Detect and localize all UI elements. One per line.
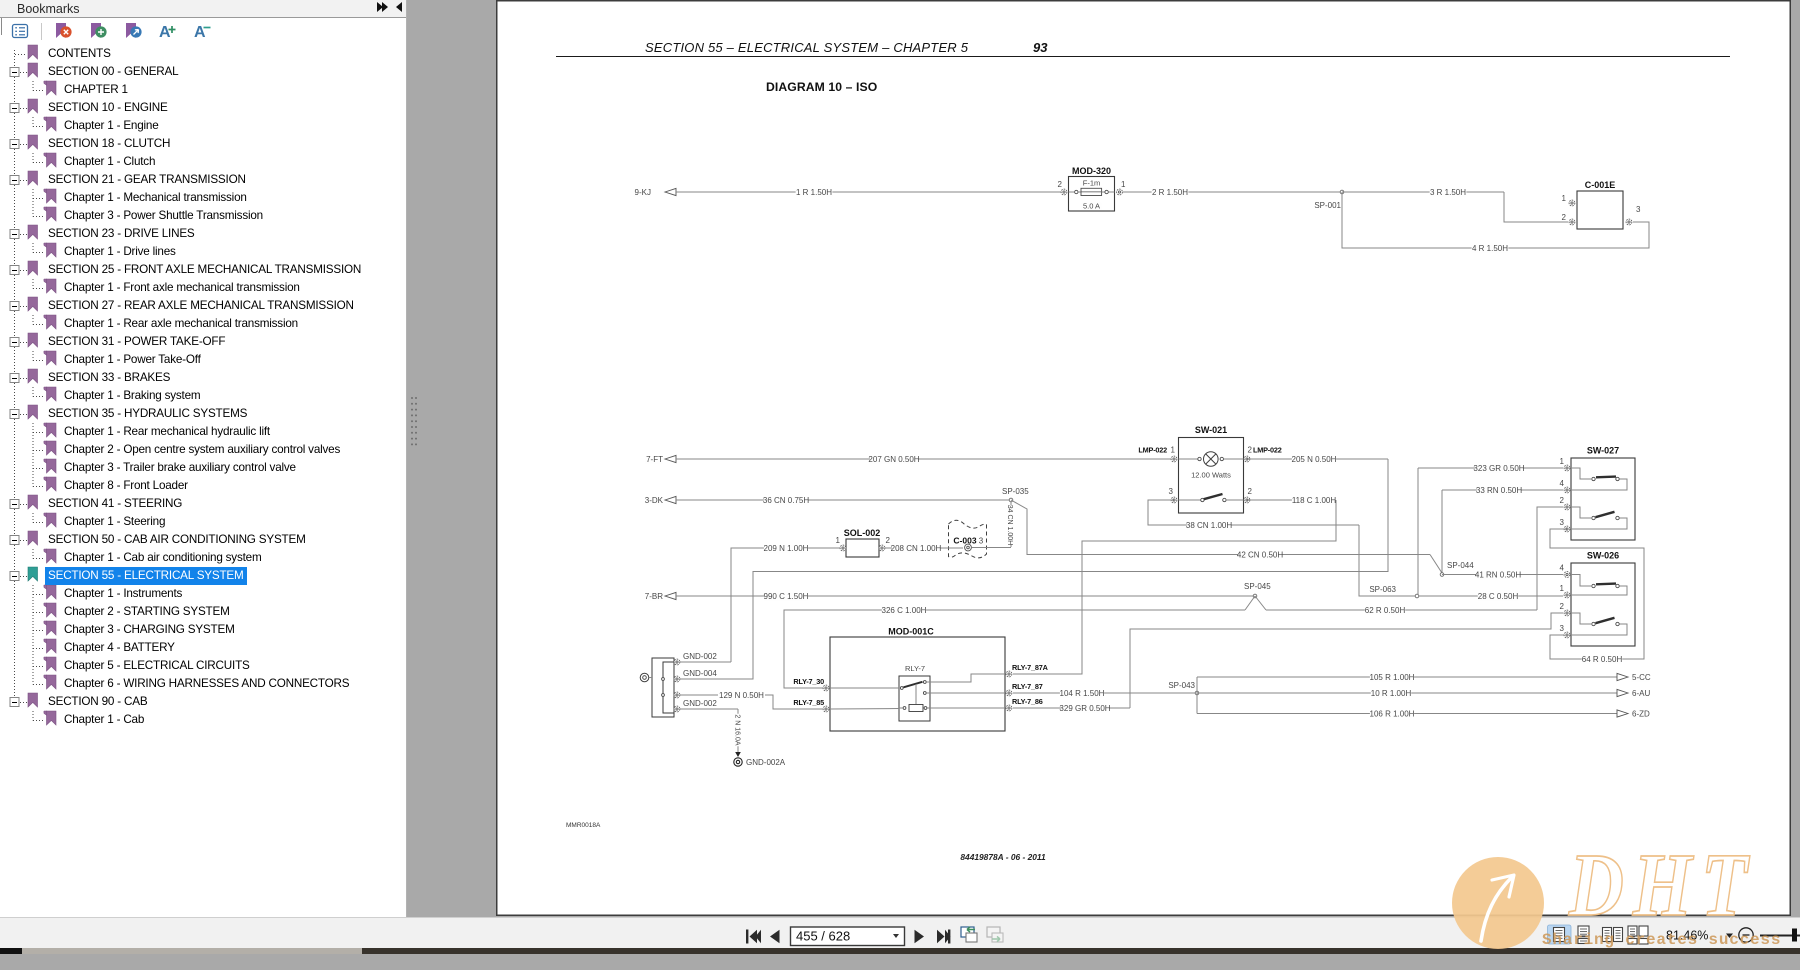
svg-text:1: 1	[1560, 584, 1565, 593]
svg-text:105 R 1.00H: 105 R 1.00H	[1370, 673, 1415, 682]
svg-text:GND-004: GND-004	[683, 669, 717, 678]
svg-text:LMP-022: LMP-022	[1253, 446, 1282, 455]
svg-text:5-CC: 5-CC	[1632, 673, 1651, 682]
svg-text:RLY-7_30: RLY-7_30	[793, 677, 824, 686]
svg-text:3-DK: 3-DK	[645, 496, 664, 505]
svg-text:3: 3	[1636, 205, 1641, 214]
svg-text:1: 1	[1171, 446, 1176, 455]
svg-text:C-003: C-003	[953, 536, 976, 546]
svg-text:MOD-320: MOD-320	[1072, 166, 1111, 176]
svg-text:SW-021: SW-021	[1195, 425, 1227, 435]
svg-text:990 C 1.50H: 990 C 1.50H	[764, 592, 809, 601]
svg-text:GND-002: GND-002	[683, 652, 717, 661]
svg-text:323 GR 0.50H: 323 GR 0.50H	[1473, 464, 1524, 473]
svg-text:2 R 1.50H: 2 R 1.50H	[1152, 188, 1188, 197]
svg-text:RLY-7_85: RLY-7_85	[793, 698, 824, 707]
svg-text:326 C 1.00H: 326 C 1.00H	[882, 606, 927, 615]
svg-text:RLY-7_87A: RLY-7_87A	[1012, 663, 1049, 672]
svg-text:3 R 1.50H: 3 R 1.50H	[1430, 188, 1466, 197]
svg-text:RLY-7: RLY-7	[905, 664, 925, 673]
svg-text:LMP-022: LMP-022	[1138, 446, 1167, 455]
svg-text:1: 1	[1121, 180, 1126, 189]
svg-text:7-BR: 7-BR	[645, 592, 663, 601]
svg-text:GND-002: GND-002	[683, 699, 717, 708]
svg-text:SW-026: SW-026	[1587, 551, 1619, 561]
svg-text:104 R 1.50H: 104 R 1.50H	[1060, 689, 1105, 698]
svg-text:SP-043: SP-043	[1168, 681, 1195, 690]
svg-text:84419878A - 06 - 2011: 84419878A - 06 - 2011	[960, 852, 1046, 862]
svg-text:129 N 0.50H: 129 N 0.50H	[719, 691, 764, 700]
svg-text:41 RN 0.50H: 41 RN 0.50H	[1475, 571, 1521, 580]
svg-text:36 CN 0.75H: 36 CN 0.75H	[763, 496, 809, 505]
svg-text:2: 2	[1560, 602, 1565, 611]
svg-text:2: 2	[1560, 496, 1565, 505]
svg-text:3: 3	[1169, 487, 1174, 496]
svg-text:2: 2	[1058, 180, 1063, 189]
svg-text:33 RN 0.50H: 33 RN 0.50H	[1476, 486, 1522, 495]
svg-text:F-1m: F-1m	[1083, 179, 1101, 188]
svg-text:SW-027: SW-027	[1587, 446, 1619, 456]
svg-text:2: 2	[1562, 213, 1567, 222]
svg-text:6-ZD: 6-ZD	[1632, 710, 1650, 719]
svg-text:2 N 16.0A: 2 N 16.0A	[734, 714, 741, 745]
svg-text:7-FT: 7-FT	[646, 455, 663, 464]
svg-text:34 CN 1.00H: 34 CN 1.00H	[1006, 505, 1013, 545]
svg-text:3: 3	[1560, 624, 1565, 633]
svg-text:329 GR 0.50H: 329 GR 0.50H	[1059, 704, 1110, 713]
svg-text:64 R 0.50H: 64 R 0.50H	[1582, 655, 1623, 664]
svg-text:9-KJ: 9-KJ	[635, 188, 651, 197]
svg-text:118 C 1.00H: 118 C 1.00H	[1292, 496, 1337, 505]
svg-text:2: 2	[1248, 487, 1253, 496]
svg-text:6-AU: 6-AU	[1632, 689, 1650, 698]
svg-text:SP-044: SP-044	[1447, 561, 1474, 570]
svg-text:4: 4	[1560, 479, 1565, 488]
svg-text:1: 1	[1560, 457, 1565, 466]
svg-text:2: 2	[1248, 446, 1253, 455]
svg-text:GND-002A: GND-002A	[746, 758, 786, 767]
svg-text:4 R 1.50H: 4 R 1.50H	[1472, 244, 1508, 253]
svg-text:1: 1	[1562, 194, 1567, 203]
svg-text:62 R 0.50H: 62 R 0.50H	[1365, 606, 1406, 615]
svg-text:455 / 628: 455 / 628	[796, 929, 850, 944]
svg-text:1: 1	[836, 536, 841, 545]
svg-text:12.00 Watts: 12.00 Watts	[1191, 471, 1231, 480]
svg-text:MOD-001C: MOD-001C	[888, 627, 934, 637]
svg-text:10 R 1.00H: 10 R 1.00H	[1371, 689, 1412, 698]
svg-text:SP-063: SP-063	[1369, 585, 1396, 594]
svg-text:207 GN 0.50H: 207 GN 0.50H	[868, 455, 919, 464]
svg-text:4: 4	[1560, 564, 1565, 573]
svg-text:5.0 A: 5.0 A	[1083, 202, 1100, 211]
svg-text:RLY-7_87: RLY-7_87	[1012, 682, 1043, 691]
svg-text:1 R 1.50H: 1 R 1.50H	[796, 188, 832, 197]
svg-text:RLY-7_86: RLY-7_86	[1012, 697, 1043, 706]
svg-text:205 N 0.50H: 205 N 0.50H	[1292, 455, 1337, 464]
svg-text:SOL-002: SOL-002	[844, 528, 881, 538]
svg-text:3: 3	[979, 537, 984, 546]
svg-text:SP-035: SP-035	[1002, 487, 1029, 496]
svg-text:42 CN 0.50H: 42 CN 0.50H	[1237, 551, 1283, 560]
svg-text:3: 3	[1560, 518, 1565, 527]
svg-text:38 CN 1.00H: 38 CN 1.00H	[1186, 521, 1232, 530]
svg-text:SP-045: SP-045	[1244, 582, 1271, 591]
svg-text:209 N 1.00H: 209 N 1.00H	[764, 544, 809, 553]
svg-text:C-001E: C-001E	[1585, 180, 1616, 190]
svg-text:106 R 1.00H: 106 R 1.00H	[1370, 710, 1415, 719]
svg-text:SP-001: SP-001	[1314, 201, 1341, 210]
svg-text:MMR0018A: MMR0018A	[566, 822, 601, 829]
svg-text:28 C 0.50H: 28 C 0.50H	[1478, 592, 1519, 601]
svg-text:208 CN 1.00H: 208 CN 1.00H	[891, 544, 942, 553]
